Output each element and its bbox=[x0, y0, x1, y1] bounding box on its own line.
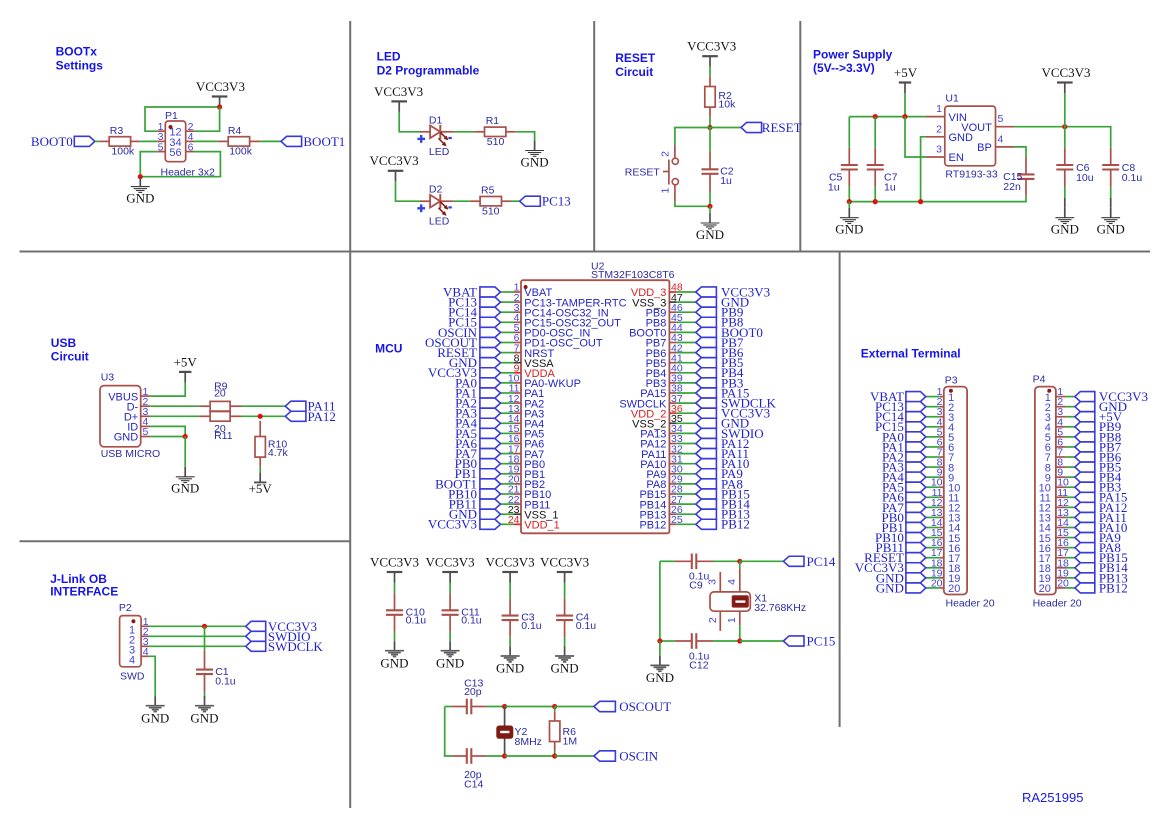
wire D2 cathode to R5 bbox=[453, 200, 469, 202]
svg-text:R3: R3 bbox=[110, 125, 124, 137]
P3 inside pin number 14 bbox=[948, 523, 960, 535]
capacitor C4 bbox=[556, 599, 596, 638]
port RESET (U2 pin 7) bbox=[437, 345, 500, 360]
U2 pin 35 (VSS_2) bbox=[632, 413, 683, 431]
P4 pin 20 stub bbox=[1056, 577, 1069, 589]
U2 pin 28 (PB15) bbox=[639, 484, 682, 502]
U2 pin 30 (PA9) bbox=[646, 464, 682, 482]
port PA4 (U2 pin 14) bbox=[455, 416, 500, 431]
ground GND (C1) bbox=[190, 696, 218, 725]
wire P4 pin 7 to port PB6 bbox=[1066, 456, 1075, 458]
U2 pin 10 (PA0-WKUP) bbox=[508, 373, 581, 391]
svg-text:GND: GND bbox=[835, 222, 863, 237]
wire P4 pin 8 to port PB5 bbox=[1066, 466, 1075, 468]
port PA4 (P3 pin 9) bbox=[882, 470, 926, 485]
P4 inside pin number 2 bbox=[1045, 402, 1051, 414]
port GND (P3 pin 19) bbox=[876, 570, 926, 585]
port OSCOUT (U2 pin 6) bbox=[425, 335, 501, 350]
U2 pin 12 (PA2) bbox=[508, 393, 544, 411]
svg-text:EN: EN bbox=[949, 152, 964, 164]
wire U2 pin 32 to port PA11 bbox=[676, 453, 695, 455]
svg-text:External Terminal: External Terminal bbox=[861, 346, 961, 360]
svg-text:4: 4 bbox=[143, 646, 149, 658]
microcontroller U2 (STM32F103C8T6) bbox=[521, 260, 675, 533]
P4 pin 19 stub bbox=[1056, 567, 1069, 579]
U2 pin 27 (PB14) bbox=[639, 494, 682, 512]
wire P4 pin 3 to port +5V bbox=[1066, 416, 1075, 418]
svg-text:Settings: Settings bbox=[56, 59, 104, 73]
wire C8 to GND bbox=[1110, 187, 1112, 198]
wire U2 pin 33 to port PA12 bbox=[676, 443, 695, 445]
svg-text:Power Supply: Power Supply bbox=[813, 47, 893, 61]
svg-text:2: 2 bbox=[936, 123, 942, 135]
wire P4 pin 18 to port PB14 bbox=[1066, 567, 1075, 569]
P3 pin 18 stub bbox=[931, 557, 944, 569]
wire P3 pin 3 to port PC14 bbox=[926, 416, 940, 418]
port PB14 (P4 pin 18) bbox=[1075, 560, 1128, 575]
P4 inside pin number 16 bbox=[1039, 543, 1051, 555]
ground GND (C4) bbox=[551, 647, 579, 676]
junction OSCIN node at Y2 bbox=[502, 753, 507, 758]
wire P4 pin 13 to port PA11 bbox=[1066, 516, 1075, 518]
P2 pin 2 bbox=[129, 626, 149, 647]
power VCC3V3 (LED D1) bbox=[374, 84, 423, 112]
U2 pin 18 (PB0) bbox=[508, 453, 545, 471]
svg-text:P4: P4 bbox=[1033, 374, 1046, 386]
svg-text:VCC3V3: VCC3V3 bbox=[370, 554, 419, 569]
wire U2 pin 28 to port PB15 bbox=[676, 493, 695, 495]
wire GND rail (X1 group) bbox=[659, 561, 661, 641]
wire P4 pin 12 to port PA12 bbox=[1066, 506, 1075, 508]
wire R3 to P1 pin 3 bbox=[140, 140, 157, 142]
U3 pin 3 D+ bbox=[124, 406, 150, 424]
wire +5V node to EN bbox=[905, 117, 926, 157]
P3 inside pin number 6 bbox=[948, 442, 954, 454]
svg-text:0.1u: 0.1u bbox=[461, 615, 482, 627]
U1 pin 4 BP bbox=[977, 133, 1014, 154]
port PB12 (U2 pin 25) bbox=[696, 517, 750, 532]
junction OSCIN node at R6 bbox=[552, 753, 557, 758]
P4 pin 14 stub bbox=[1056, 517, 1069, 529]
wire switch pin 1 to GND node bbox=[675, 201, 710, 206]
U2 pin 4 (PC15-OSC32_OUT) bbox=[514, 312, 622, 330]
svg-text:GND: GND bbox=[646, 670, 674, 685]
P4 inside pin number 19 bbox=[1039, 573, 1051, 585]
P3 pin 7 stub bbox=[937, 447, 944, 459]
P3 inside pin number 18 bbox=[948, 563, 960, 575]
svg-text:VCC3V3: VCC3V3 bbox=[374, 84, 423, 99]
P1 pin number 6 bbox=[188, 141, 194, 153]
svg-text:BOOT1: BOOT1 bbox=[303, 134, 345, 149]
svg-text:1u: 1u bbox=[828, 181, 840, 193]
wire P4 pin 5 to port PB8 bbox=[1066, 436, 1075, 438]
port PB9 (U2 pin 46) bbox=[696, 305, 744, 320]
port PB4 (U2 pin 40) bbox=[696, 365, 744, 380]
svg-text:PA12: PA12 bbox=[308, 409, 336, 424]
switch SW-RESET (pushbutton) bbox=[663, 158, 678, 185]
svg-text:VOUT: VOUT bbox=[961, 122, 992, 134]
svg-text:R11: R11 bbox=[214, 430, 233, 442]
wire U2 pin 27 to port PB14 bbox=[676, 503, 695, 505]
wire rail to C13 bbox=[445, 706, 452, 708]
svg-text:GND: GND bbox=[190, 710, 218, 725]
wire P3 pin 10 to port PA5 bbox=[926, 486, 940, 488]
port PB10 (U2 pin 21) bbox=[448, 486, 500, 501]
wire VCC3V3 to P1 pin 1 bbox=[145, 107, 220, 131]
divider line vertical LED-RESET bbox=[593, 21, 595, 252]
resistor R3 bbox=[100, 125, 141, 157]
port OSCOUT bbox=[594, 699, 671, 714]
port PB8 (U2 pin 45) bbox=[696, 315, 744, 330]
wire P3 pin 14 to port PB1 bbox=[926, 527, 940, 529]
wire U2 pin 22 to port PB11 bbox=[501, 503, 515, 505]
svg-text:5: 5 bbox=[998, 113, 1004, 125]
wire P3 pin 20 to port GND bbox=[926, 587, 940, 589]
wire PC14 node to X1 pin 4 bbox=[739, 561, 741, 568]
P4 pin 7 stub bbox=[1056, 447, 1066, 459]
wire P2 pin 3 to SWDCLK port bbox=[149, 645, 246, 647]
svg-text:VCC3V3: VCC3V3 bbox=[486, 554, 535, 569]
U2 pin 41 (PB5) bbox=[646, 352, 683, 370]
U2 pin 14 (PA4) bbox=[508, 413, 544, 431]
P4 pin 16 stub bbox=[1056, 537, 1069, 549]
P3 inside pin number 20 bbox=[948, 583, 960, 595]
wire VCC3V3 node down to C1 bbox=[204, 626, 206, 650]
port +5V (P4 pin 3) bbox=[1075, 409, 1123, 424]
wire C6 to GND bbox=[1064, 187, 1066, 198]
svg-text:P3: P3 bbox=[945, 374, 958, 386]
svg-text:R4: R4 bbox=[228, 125, 242, 137]
svg-text:PC13: PC13 bbox=[542, 194, 571, 209]
svg-text:Header 20: Header 20 bbox=[1033, 597, 1082, 609]
port PB13 (P4 pin 19) bbox=[1075, 570, 1128, 585]
svg-text:GND: GND bbox=[436, 655, 464, 670]
svg-text:0.1u: 0.1u bbox=[215, 675, 236, 687]
capacitor C3 bbox=[502, 599, 542, 638]
svg-text:C9: C9 bbox=[689, 579, 703, 591]
wire U2 pin 12 to port PA2 bbox=[501, 402, 515, 404]
svg-text:Circuit: Circuit bbox=[615, 65, 653, 79]
svg-text:8MHz: 8MHz bbox=[515, 736, 542, 748]
U3 pin 2 D- bbox=[127, 396, 151, 414]
wire P1 pin 5 to GND node bbox=[140, 152, 157, 177]
junction ground rail at C7 bbox=[873, 199, 878, 204]
svg-text:USB: USB bbox=[51, 336, 77, 350]
svg-text:3: 3 bbox=[707, 579, 719, 585]
P3 pin 16 stub bbox=[931, 537, 944, 549]
svg-text:PB12: PB12 bbox=[721, 517, 750, 532]
divider line vertical right-lower bbox=[839, 252, 841, 728]
svg-text:GND: GND bbox=[380, 655, 408, 670]
D2 plus sign bbox=[417, 204, 425, 212]
wire +5V down to VIN rail bbox=[904, 93, 906, 117]
junction VCC3V3 node at C1 bbox=[202, 624, 207, 629]
P4 pin 10 stub bbox=[1056, 477, 1069, 489]
port PA8 (U2 pin 29) bbox=[696, 476, 743, 491]
port PA9 (U2 pin 30) bbox=[696, 466, 743, 481]
P4 inside pin number 20 bbox=[1039, 583, 1051, 595]
wire U2 pin 34 to port SWDIO bbox=[676, 432, 695, 434]
svg-text:2: 2 bbox=[659, 151, 671, 157]
wire D1 cathode to R1 bbox=[453, 131, 474, 133]
svg-text:R1: R1 bbox=[486, 115, 500, 127]
power VCC3V3 (RESET) bbox=[687, 39, 736, 67]
port BOOT1 (U2 pin 20) bbox=[435, 476, 500, 491]
svg-text:4: 4 bbox=[726, 579, 738, 585]
port PA7 (P3 pin 12) bbox=[882, 500, 926, 515]
P1 pin number 4 bbox=[188, 131, 194, 143]
svg-text:+5V: +5V bbox=[249, 481, 273, 496]
wire U2 pin 10 to port PA0 bbox=[501, 382, 515, 384]
svg-text:RT9193-33: RT9193-33 bbox=[945, 169, 998, 181]
wire ground rail to GND symbol bbox=[848, 202, 850, 208]
wire left rail (Y2 group) bbox=[445, 707, 452, 757]
port GND (U2 pin 23) bbox=[449, 507, 501, 522]
port VBAT (U2 pin 1) bbox=[443, 284, 500, 299]
U2 pin 43 (PB7) bbox=[646, 332, 683, 350]
wire to OSCIN port bbox=[555, 755, 594, 757]
junction GND node (RESET) bbox=[707, 204, 712, 209]
wire U2 pin 38 to port PA15 bbox=[676, 392, 695, 394]
wire P1 pin 4 to R4 bbox=[194, 140, 218, 142]
svg-text:VCC3V3: VCC3V3 bbox=[1041, 65, 1090, 80]
capacitor C5 bbox=[828, 148, 858, 194]
port BOOT0 bbox=[31, 134, 95, 149]
P4 inside pin number 17 bbox=[1039, 553, 1051, 565]
P4 pin 5 stub bbox=[1056, 426, 1066, 438]
P4 inside pin number 6 bbox=[1045, 442, 1051, 454]
svg-text:PB12: PB12 bbox=[639, 520, 666, 532]
wire U2 pin 29 to port PA8 bbox=[676, 483, 695, 485]
port VBAT (P3 pin 1) bbox=[870, 389, 926, 404]
wire VIN rail to C5 bbox=[848, 117, 850, 148]
port PB8 (P4 pin 5) bbox=[1075, 429, 1121, 444]
svg-text:1: 1 bbox=[936, 103, 942, 115]
wire D+ to R11 bbox=[150, 415, 199, 417]
wire VBUS to +5V bbox=[150, 382, 185, 396]
wire ground rail (power section) bbox=[849, 196, 1026, 201]
P3 pin 12 stub bbox=[931, 497, 944, 509]
wire VCC3V3 to VOUT rail bbox=[1064, 93, 1066, 127]
U2 pin 33 (PA12) bbox=[640, 433, 683, 451]
switch pin number 2 bbox=[659, 151, 671, 157]
wire VCC3V3 to D2 anode bbox=[396, 181, 421, 201]
svg-text:32.768KHz: 32.768KHz bbox=[754, 602, 806, 614]
wire U2 pin 30 to port PA9 bbox=[676, 473, 695, 475]
port PB6 (P4 pin 7) bbox=[1075, 449, 1122, 464]
ground GND (USB) bbox=[171, 467, 199, 496]
wire U2 pin 39 to port PB3 bbox=[676, 382, 695, 384]
port SWDIO (J-Link) bbox=[246, 629, 311, 644]
wire P4 pin 15 to port PA9 bbox=[1066, 537, 1075, 539]
port PC15 (U2 pin 4) bbox=[448, 315, 500, 330]
header P4 (Header 20) bbox=[1033, 374, 1082, 610]
svg-text:U3: U3 bbox=[101, 372, 115, 384]
P3 pin 14 stub bbox=[931, 517, 944, 529]
P4 inside pin number 18 bbox=[1039, 563, 1051, 575]
P2 pin 1 marker dot bbox=[131, 619, 135, 623]
wire R11 to PA12 port bbox=[242, 415, 286, 417]
svg-text:10k: 10k bbox=[718, 99, 736, 111]
port PA12 (U2 pin 33) bbox=[696, 436, 750, 451]
wire P3 pin 1 to port VBAT bbox=[926, 396, 940, 398]
wire U2 pin 1 to port VBAT bbox=[501, 291, 515, 293]
P1 pin number 1 bbox=[158, 121, 164, 133]
port PA2 (U2 pin 12) bbox=[455, 396, 500, 411]
svg-text:INTERFACE: INTERFACE bbox=[50, 585, 118, 599]
P1 pin 1 marker dot bbox=[169, 125, 173, 129]
wire GND node down bbox=[184, 437, 186, 467]
P4 pin 9 stub bbox=[1056, 467, 1066, 479]
capacitor C15 bbox=[1003, 157, 1034, 196]
junction PC15 node bbox=[737, 638, 742, 643]
wire U2 pin 5 to port OSCIN bbox=[501, 331, 515, 333]
P1 inside pin labels 34 bbox=[169, 137, 181, 149]
P4 inside pin number 1 bbox=[1045, 392, 1051, 404]
wire P2 pin 2 to SWDIO port bbox=[149, 635, 246, 637]
ground GND (C8) bbox=[1097, 208, 1125, 237]
wire RESET node to C2 bbox=[709, 128, 711, 152]
svg-text:GND: GND bbox=[496, 661, 524, 676]
P4 pin 6 stub bbox=[1056, 436, 1066, 448]
divider line vertical top-middle bbox=[799, 21, 801, 252]
port PC14 (P3 pin 3) bbox=[875, 409, 926, 424]
wire Y2 to R6 (OSCOUT row) bbox=[505, 706, 555, 708]
section title External Terminal bbox=[861, 346, 961, 360]
U2 pin 36 (VDD_2) bbox=[631, 403, 683, 421]
P1 pin 1 stub bbox=[157, 130, 165, 132]
port VCC3V3 (U2 pin 9) bbox=[428, 365, 501, 380]
P1 pin number 3 bbox=[158, 131, 164, 143]
ground GND (C11) bbox=[436, 641, 464, 670]
wire U2 pin 21 to port PB10 bbox=[501, 493, 515, 495]
U1 pin 1 VIN bbox=[926, 103, 967, 124]
capacitor C10 bbox=[386, 593, 426, 632]
P4 inside pin number 10 bbox=[1039, 482, 1051, 494]
ground GND (LED D1) bbox=[521, 141, 549, 170]
junction VIN rail at +5V bbox=[902, 114, 907, 119]
U1 pin 3 EN bbox=[926, 144, 964, 165]
wire R2 to RESET node bbox=[709, 117, 711, 127]
switch pin number 1 bbox=[659, 188, 671, 194]
P3 pin 3 stub bbox=[937, 406, 944, 418]
wire P4 pin 20 to port PB12 bbox=[1066, 587, 1075, 589]
svg-text:GND: GND bbox=[876, 580, 904, 595]
wire P3 pin 4 to port PC15 bbox=[926, 426, 940, 428]
wire VCC3V3 to C4 bbox=[564, 583, 566, 599]
svg-text:C14: C14 bbox=[464, 778, 483, 790]
svg-text:GND: GND bbox=[1097, 222, 1125, 237]
svg-text:VDD_1: VDD_1 bbox=[524, 520, 559, 532]
svg-text:6: 6 bbox=[188, 141, 194, 153]
wire ID to GND net bbox=[150, 426, 185, 436]
wire U2 pin 24 to port VCC3V3 bbox=[501, 523, 515, 525]
junction OSCOUT node at Y2 bbox=[502, 704, 507, 709]
U2 pin 32 (PA11) bbox=[641, 443, 683, 461]
port PA12 (USB) bbox=[285, 409, 336, 424]
P3 pin 13 stub bbox=[931, 507, 944, 519]
ground GND (C3) bbox=[496, 647, 524, 676]
svg-text:USB MICRO: USB MICRO bbox=[101, 448, 161, 460]
svg-text:4: 4 bbox=[129, 655, 135, 667]
power VCC3V3 (BOOTx) bbox=[196, 79, 245, 107]
svg-text:1: 1 bbox=[726, 617, 738, 623]
svg-text:10u: 10u bbox=[1076, 172, 1094, 184]
svg-text:4.7k: 4.7k bbox=[268, 447, 289, 459]
U2 pin 8 (VSSA) bbox=[514, 352, 555, 370]
svg-text:SWD: SWD bbox=[120, 671, 145, 683]
wire U2 pin 3 to port PC14 bbox=[501, 311, 515, 313]
svg-text:100k: 100k bbox=[111, 146, 135, 158]
LED D2 bbox=[420, 183, 453, 227]
svg-text:20p: 20p bbox=[464, 686, 482, 698]
port PB6 (U2 pin 42) bbox=[696, 345, 744, 360]
wire VOUT to VCC3V3 rail and C8 bbox=[1014, 127, 1111, 148]
port RESET (P3 pin 17) bbox=[864, 550, 926, 565]
P3 inside pin number 11 bbox=[948, 493, 959, 505]
capacitor C12 bbox=[675, 633, 713, 671]
U2 pin 37 (SWDCLK) bbox=[619, 393, 683, 411]
header P1 (Header 3x2) bbox=[161, 110, 215, 179]
P4 inside pin number 11 bbox=[1039, 493, 1050, 505]
wire P4 pin 14 to port PA10 bbox=[1066, 527, 1075, 529]
wire R10 to +5V bbox=[259, 466, 261, 473]
section title BOOTx Settings bbox=[56, 44, 104, 72]
svg-text:D2: D2 bbox=[429, 183, 443, 195]
resistor R4 bbox=[218, 125, 260, 157]
U2 pin 42 (PB6) bbox=[646, 342, 683, 360]
svg-text:Circuit: Circuit bbox=[51, 350, 89, 364]
P4 pin 12 stub bbox=[1056, 497, 1069, 509]
ground GND (BOOTx) bbox=[126, 177, 154, 206]
section title LED D2 Programmable bbox=[377, 50, 480, 78]
port PC13 (P3 pin 2) bbox=[875, 399, 926, 414]
port PA15 (U2 pin 38) bbox=[696, 385, 750, 400]
port GND (U2 pin 35) bbox=[696, 416, 749, 431]
wire P3 pin 11 to port PA6 bbox=[926, 496, 940, 498]
P3 pin 2 stub bbox=[937, 396, 944, 408]
junction VOUT rail at C6/VCC3V3 bbox=[1062, 124, 1067, 129]
U2 pin 39 (PB3) bbox=[646, 373, 683, 391]
svg-text:PB12: PB12 bbox=[1099, 580, 1128, 595]
LED D1 bbox=[420, 114, 453, 158]
U2 pin 31 (PA10) bbox=[640, 453, 683, 471]
P3 inside pin number 4 bbox=[948, 422, 954, 434]
svg-text:BOOTx: BOOTx bbox=[56, 44, 98, 58]
P3 pin 20 stub bbox=[931, 577, 944, 589]
X1 pin number 1 bbox=[726, 617, 738, 623]
wire C1 to GND bbox=[204, 692, 206, 698]
svg-text:VCC3V3: VCC3V3 bbox=[540, 554, 589, 569]
port OSCIN (U2 pin 5) bbox=[438, 325, 501, 340]
switch SW-RESET pin 1 stub bbox=[674, 185, 676, 202]
wire P3 pin 19 to port GND bbox=[926, 577, 940, 579]
port PC13 (U2 pin 2) bbox=[448, 295, 500, 310]
P4 pin 13 stub bbox=[1056, 507, 1069, 519]
U2 pin 45 (PB8) bbox=[646, 312, 683, 330]
P3 inside pin number 13 bbox=[948, 513, 960, 525]
P3 inside pin number 10 bbox=[948, 482, 960, 494]
wire RESET node to switch pin 2 bbox=[675, 128, 710, 146]
port SWDCLK (U2 pin 37) bbox=[696, 396, 777, 411]
P3 pin 17 stub bbox=[931, 547, 944, 559]
port PA0 (P3 pin 5) bbox=[882, 429, 926, 444]
wire C3 to GND bbox=[509, 637, 511, 646]
svg-text:BOOT0: BOOT0 bbox=[31, 134, 73, 149]
wire RESET node to port bbox=[710, 127, 741, 129]
svg-text:MCU: MCU bbox=[375, 342, 402, 356]
port PA8 (P4 pin 16) bbox=[1075, 540, 1121, 555]
